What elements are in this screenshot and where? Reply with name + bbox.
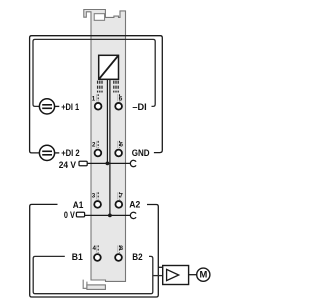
wire 0V to A2 terminal arc <box>85 214 131 216</box>
din rail clip <box>83 280 87 289</box>
sensor S1 right stub <box>55 105 60 107</box>
svg-text:5: 5 <box>119 96 123 103</box>
terminal circle 8 <box>115 254 122 261</box>
inner loop wire: sensor1 to -DI over the top <box>33 39 155 106</box>
terminal circle 2 <box>95 150 102 157</box>
svg-text:6: 6 <box>120 142 124 149</box>
svg-text:B2: B2 <box>132 251 142 262</box>
wire 24V to GND terminal arc <box>87 162 131 164</box>
terminal circle 6 <box>115 150 122 157</box>
svg-text:4: 4 <box>92 245 96 252</box>
svg-text:–DI: –DI <box>132 101 146 112</box>
contact hatch terminal 1 <box>96 94 98 101</box>
svg-text:24 V: 24 V <box>59 159 77 170</box>
terminal circle 7 <box>115 201 122 208</box>
svg-text:B1: B1 <box>72 251 83 262</box>
wire amplifier to motor <box>189 274 197 276</box>
svg-text:GND: GND <box>132 147 150 158</box>
wire A loop: A1 label around bottom up to A2 label <box>30 204 159 297</box>
converter diagonal <box>99 56 118 79</box>
terminal circle 1 <box>95 103 102 110</box>
svg-text:3: 3 <box>92 192 96 199</box>
contact hatch terminal 3 <box>96 192 98 199</box>
module foot <box>87 285 106 290</box>
terminal circle 5 <box>115 103 122 110</box>
sensor S1 (circle with double bar) <box>39 99 54 114</box>
svg-text:+DI 2: +DI 2 <box>61 147 79 158</box>
svg-text:7: 7 <box>119 192 123 199</box>
terminal circle 3 <box>94 201 101 208</box>
svg-text:8: 8 <box>120 245 124 252</box>
sensor S2 (circle with double bar) <box>39 145 54 160</box>
svg-text:2: 2 <box>92 142 96 149</box>
svg-text:A2: A2 <box>129 199 140 210</box>
wire B to amplifier input <box>153 275 163 277</box>
internal wire right (to 0V rail) <box>109 79 111 215</box>
contact hatch terminal 6 <box>118 141 120 148</box>
svg-text:A1: A1 <box>73 199 84 210</box>
converter box U1 (square with diagonal) <box>99 55 119 79</box>
clamp hatch below box left (terminal 1 contact) <box>98 81 102 93</box>
amplifier (drive) box <box>163 266 189 285</box>
terminal circle 4 <box>94 254 101 261</box>
junction dot 24V rail <box>106 162 110 166</box>
A2 terminal arc <box>130 212 136 218</box>
contact hatch terminal 7 <box>118 192 120 199</box>
junction dot 0V rail <box>108 214 112 218</box>
GND terminal arc <box>130 160 136 166</box>
svg-text:+DI 1: +DI 1 <box>61 101 79 112</box>
amplifier triangle <box>167 269 179 280</box>
outer loop wire: sensor2 to GND over the top <box>30 36 163 153</box>
contact hatch terminal 4 <box>96 245 98 252</box>
svg-text:M: M <box>199 268 207 279</box>
contact hatch terminal 5 <box>118 94 120 101</box>
svg-text:1: 1 <box>92 96 96 103</box>
internal wire left (to 24V rail) <box>106 79 108 163</box>
contact hatch terminal 2 <box>96 141 98 148</box>
wire B loop: B1 label around bottom up to B2 label <box>33 256 153 293</box>
contact hatch terminal 8 <box>118 245 120 252</box>
sensor S2 right stub <box>55 152 60 154</box>
wire A to amplifier input <box>158 266 162 268</box>
svg-text:0 V: 0 V <box>64 209 75 220</box>
module cap window <box>94 14 104 21</box>
motor M <box>197 268 210 281</box>
clamp hatch below box right (terminal 5 contact) <box>114 81 118 93</box>
I/O module body (terminal block) <box>84 10 126 282</box>
